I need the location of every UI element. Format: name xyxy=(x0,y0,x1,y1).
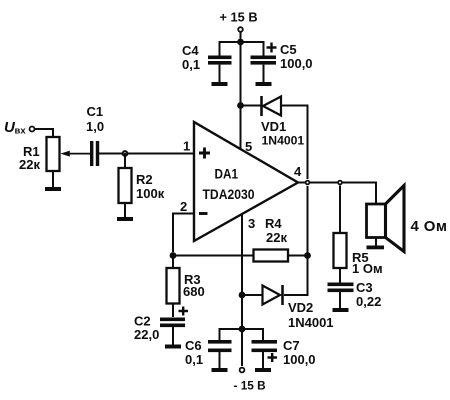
op-amp plus input symbol xyxy=(199,148,210,159)
diode VD2 1N4001 xyxy=(263,285,334,330)
svg-text:C1: C1 xyxy=(87,104,104,119)
wire VD2 anode lead xyxy=(242,294,262,296)
ground under C4 xyxy=(212,65,228,86)
svg-text:3: 3 xyxy=(248,216,255,231)
resistor R4 22k xyxy=(254,216,289,262)
svg-text:R2: R2 xyxy=(136,172,153,187)
wire +15V rail xyxy=(220,42,264,56)
capacitor C4 0,1 xyxy=(182,43,232,72)
capacitor C5 100,0 polarized xyxy=(251,42,313,71)
svg-text:100к: 100к xyxy=(136,186,165,201)
wire +15V rail down to VD1 node and pin5 xyxy=(240,42,242,150)
wire node to R2 xyxy=(124,153,126,169)
svg-text:C3: C3 xyxy=(356,280,373,295)
svg-text:100,0: 100,0 xyxy=(283,352,316,367)
wire VD1 left lead xyxy=(241,105,261,107)
resistor R1 22k (input level pot) xyxy=(19,137,60,172)
svg-text:4: 4 xyxy=(294,164,302,179)
ground under C3 xyxy=(333,292,349,312)
diode VD1 1N4001 xyxy=(261,96,304,148)
ground under C6 xyxy=(212,352,228,372)
wire output column down to VD2 cathode xyxy=(284,186,308,295)
svg-text:4 Ом: 4 Ом xyxy=(411,218,448,235)
resistor R3 680 xyxy=(167,256,205,304)
wire pin3 column xyxy=(241,214,243,366)
svg-text:100,0: 100,0 xyxy=(280,56,313,71)
svg-text:680: 680 xyxy=(183,284,205,299)
node -15V rail junction xyxy=(239,326,246,333)
svg-text:TDA2030: TDA2030 xyxy=(203,187,255,202)
svg-text:VD2: VD2 xyxy=(288,300,313,315)
capacitor C6 0,1 xyxy=(185,338,232,367)
svg-text:C7: C7 xyxy=(283,338,300,353)
wire -15V rail xyxy=(220,329,264,340)
node output pin4 ring xyxy=(306,181,310,185)
capacitor C1 1,0 xyxy=(86,104,104,166)
svg-text:0,1: 0,1 xyxy=(185,352,203,367)
capacitor C2 22,0 polarized xyxy=(134,304,188,343)
ground under C2 xyxy=(165,327,181,349)
resistor R2 100k xyxy=(119,168,165,203)
svg-text:22,0: 22,0 xyxy=(134,327,159,342)
node +15V rail junction xyxy=(237,39,244,46)
wire op-amp output to speaker branch xyxy=(298,183,376,205)
node R5 branch ring xyxy=(338,181,342,185)
svg-text:вх: вх xyxy=(15,126,27,137)
svg-text:22к: 22к xyxy=(19,157,40,172)
op-amp minus input symbol xyxy=(199,212,208,215)
wire R1 wiper arrow xyxy=(66,153,92,155)
wire feedback R4 row xyxy=(173,255,308,257)
node feedback/R4 right junction xyxy=(304,252,311,259)
svg-text:5: 5 xyxy=(245,139,252,154)
capacitor C3 0,22 xyxy=(328,268,382,309)
svg-text:1N4001: 1N4001 xyxy=(262,134,305,148)
svg-text:- 15 В: - 15 В xyxy=(234,379,266,393)
node VD1 anode-side junction xyxy=(237,102,244,109)
svg-text:R4: R4 xyxy=(265,216,282,231)
power terminal -15V xyxy=(234,368,266,393)
svg-text:VD1: VD1 xyxy=(261,119,286,134)
wire R5 branch down xyxy=(339,186,341,234)
svg-text:22к: 22к xyxy=(266,230,287,245)
svg-text:0,22: 0,22 xyxy=(356,294,381,309)
wire pin2 to feedback node xyxy=(173,214,194,253)
speaker BA 4 Ом xyxy=(367,186,448,252)
svg-text:1,0: 1,0 xyxy=(86,119,104,134)
capacitor C7 100,0 polarized xyxy=(252,338,316,367)
node junction C1/R2 xyxy=(123,151,128,156)
svg-text:1 Ом: 1 Ом xyxy=(352,261,383,276)
ground under speaker xyxy=(367,237,385,249)
svg-text:1: 1 xyxy=(183,139,190,154)
wire +15V terminal to rail xyxy=(240,33,242,43)
svg-text:2: 2 xyxy=(180,199,187,214)
wire input terminal to R1 top xyxy=(35,129,53,137)
wire VD1 cathode lead to output column xyxy=(281,106,308,180)
power terminal +15V xyxy=(220,10,258,32)
ground under R2 xyxy=(117,203,133,221)
ground under R1 xyxy=(45,171,61,191)
node feedback node A xyxy=(170,252,177,259)
svg-text:C6: C6 xyxy=(185,338,202,353)
ground under C7 xyxy=(255,352,271,372)
ground under C5 xyxy=(256,65,272,86)
svg-text:C4: C4 xyxy=(182,43,199,58)
node VD2 anode junction xyxy=(239,292,246,299)
node Uvx input terminal xyxy=(4,119,35,137)
wire C1 to node A to op-amp pin1 xyxy=(99,153,194,155)
svg-text:DA1: DA1 xyxy=(215,167,239,182)
svg-text:1N4001: 1N4001 xyxy=(288,315,334,330)
svg-text:C5: C5 xyxy=(280,42,297,57)
svg-text:+ 15 В: + 15 В xyxy=(220,10,258,25)
op-amp DA1 TDA2030 xyxy=(194,122,298,241)
resistor R5 1 Ом xyxy=(334,233,383,276)
svg-text:0,1: 0,1 xyxy=(182,57,200,72)
